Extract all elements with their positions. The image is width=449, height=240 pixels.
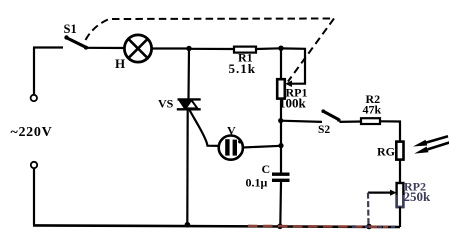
node C junction dot	[278, 118, 283, 123]
wire RP2 bottom to rail corner	[399, 207, 401, 227]
svg-text:250k: 250k	[404, 189, 432, 204]
node A junction dot	[186, 46, 191, 51]
wire lamp to node A	[151, 47, 189, 49]
wire R1 to node B	[256, 47, 281, 50]
node B junction dot	[278, 46, 283, 51]
svg-text:S1: S1	[64, 22, 77, 36]
triac VS	[177, 99, 201, 109]
switch S2	[321, 109, 340, 121]
junction dot VS-bottom rail	[185, 222, 191, 228]
wire capacitor C to bottom rail	[279, 182, 282, 226]
photoresistor RG	[396, 142, 403, 160]
terminal upper	[31, 95, 37, 101]
svg-text:5.1k: 5.1k	[229, 61, 256, 76]
wire left vertical from top corner to upper terminal	[33, 48, 35, 95]
wire node B to RP1 top	[280, 48, 282, 79]
svg-text:V: V	[227, 124, 236, 138]
junction dot wiper-bottom rail	[366, 224, 372, 230]
wire left vertical lower terminal to bottom rail	[33, 169, 35, 226]
svg-text:H: H	[115, 56, 125, 71]
wire neon lamp V to node D	[243, 146, 281, 148]
svg-text:RG: RG	[377, 145, 395, 159]
navy dashed overlay near right of bottom rail	[352, 225, 400, 228]
resistor R2	[361, 118, 380, 124]
potentiometer RP2	[390, 183, 403, 207]
wire triac gate to neon lamp V	[190, 110, 221, 146]
wire node C to switch S2	[281, 121, 322, 122]
light arrows into RG	[413, 136, 449, 153]
wire top rail from corner to switch S1	[33, 46, 63, 48]
svg-text:0.1μ: 0.1μ	[246, 176, 268, 190]
red dashed overlay on bottom rail	[248, 225, 388, 228]
wire R2 to corner	[380, 121, 400, 141]
wire node D to capacitor C	[280, 146, 282, 173]
resistor R1	[234, 47, 256, 53]
node D junction dot	[278, 143, 283, 148]
mechanical link dashed S1 to dashed rail	[86, 19, 335, 41]
neon lamp V	[219, 136, 243, 160]
mechanical link dashed diagonal to RP1	[288, 19, 334, 82]
junction dot capacitor-bottom rail	[277, 224, 283, 230]
wire node C down to node D	[280, 121, 282, 146]
potentiometer RP1	[277, 79, 292, 98]
wire bottom rail	[33, 225, 400, 227]
wire S1 to lamp H	[86, 47, 125, 49]
svg-text:S2: S2	[318, 124, 330, 136]
terminal lower	[31, 162, 37, 168]
wire S2 to R2	[340, 120, 362, 123]
wire RP1 bottom to node C	[280, 99, 282, 121]
svg-text:~220V: ~220V	[11, 125, 53, 140]
switch S1	[64, 35, 88, 49]
capacitor C	[272, 174, 290, 180]
svg-text:VS: VS	[158, 97, 174, 111]
wire RG to RP2	[399, 160, 401, 183]
wire node A to R1	[189, 48, 234, 50]
svg-text:100k: 100k	[279, 96, 307, 111]
wire RP2 wiper return	[368, 192, 392, 194]
lamp H	[124, 35, 151, 62]
svg-text:C: C	[262, 162, 271, 176]
wire node B to RP1 wiper loop	[281, 48, 305, 83]
wire node A down to triac VS	[187, 49, 190, 99]
wire triac VS to bottom rail	[186, 109, 189, 224]
svg-text:47k: 47k	[363, 103, 382, 117]
